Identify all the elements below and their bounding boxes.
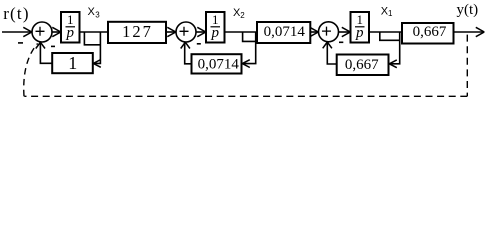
integrator block I1 (1/p) (61, 12, 80, 43)
minus sign: dashed global feedback into S1 (18, 42, 23, 44)
svg-text:p: p (355, 25, 364, 41)
integrator block I3 (1/p) (351, 12, 370, 43)
wire: block 127 to summer S2 (166, 27, 176, 36)
arrowhead into feedback block 0,667 right side (389, 60, 397, 68)
gain block 0,0714 (forward path) (257, 22, 310, 43)
node label X1 (381, 5, 393, 18)
svg-text:1: 1 (388, 9, 393, 18)
arrowhead into feedback block 0,0714 right side (242, 60, 250, 68)
wire: S1 to integrator 1 (52, 27, 61, 36)
wire: S2 to integrator 2 (196, 27, 206, 36)
wire: tap at node X1 down to feedback block 0,667 (staircase) (380, 32, 400, 64)
wire: integrator 1 output to block 127 (80, 31, 109, 33)
wire: integrator 3 output to gain block 0,667 (369, 31, 402, 33)
svg-text:0,667: 0,667 (413, 24, 447, 40)
wire: output y(t) (454, 27, 485, 36)
arrowhead into S3 bottom (323, 42, 332, 48)
svg-text:X: X (88, 6, 96, 18)
svg-text:1: 1 (68, 53, 77, 73)
svg-text:p: p (210, 25, 219, 41)
node label X3 (88, 6, 101, 19)
svg-text:127: 127 (122, 22, 153, 41)
wire: integrator 2 output to gain block 0,0714 (225, 31, 258, 33)
wire: tap at node X3 down to feedback block 1 (staircase) (84, 32, 100, 63)
feedback block 0,667 (337, 55, 389, 76)
svg-text:p: p (65, 25, 74, 41)
svg-text:0,0714: 0,0714 (264, 24, 306, 40)
integrator block I2 (1/p) (206, 12, 225, 43)
wire: input r(t) into summer S1 (2, 27, 32, 36)
arrowhead into S1 bottom (36, 42, 45, 48)
svg-text:0,0714: 0,0714 (198, 56, 240, 72)
dashed wire: global feedback diagonal up into S1 (24, 43, 38, 96)
gain block 0,667 (forward path) (402, 23, 454, 44)
svg-text:3: 3 (95, 10, 100, 19)
minus sign: feedback into S2 (197, 43, 201, 45)
summing junction S3 (319, 22, 339, 42)
wire: feedback block 1 to S1 bottom (40, 43, 52, 64)
node label X2 (233, 7, 245, 20)
svg-text:y(t): y(t) (457, 2, 479, 18)
summing junction S1 (32, 22, 52, 42)
svg-text:r(t): r(t) (3, 4, 30, 23)
feedback block 1 (52, 53, 93, 73)
arrowhead into S2 bottom (181, 42, 190, 48)
dashed wire: global feedback along bottom (24, 95, 467, 97)
wire: S3 to integrator 3 (339, 27, 351, 36)
feedback block 0,0714 (192, 54, 242, 73)
minus sign: inner loop feedback into S1 (51, 45, 55, 47)
wire: feedback block 0,0714 to S2 bottom (185, 43, 192, 64)
dashed wire: global feedback from output node down (466, 35, 468, 97)
svg-text:2: 2 (240, 11, 245, 20)
wire: tap at node X2 down to feedback block 0,0714 (staircase) (243, 32, 256, 64)
wire: block 0,0714 to summer S3 (310, 27, 319, 36)
wire: feedback block 0,667 to S3 bottom (327, 43, 336, 64)
summing junction S2 (176, 22, 196, 42)
svg-text:0,667: 0,667 (345, 57, 379, 73)
arrowhead into feedback block 1 right side (93, 60, 101, 68)
minus sign: feedback into S3 (339, 41, 343, 43)
gain block 127 (108, 22, 166, 43)
